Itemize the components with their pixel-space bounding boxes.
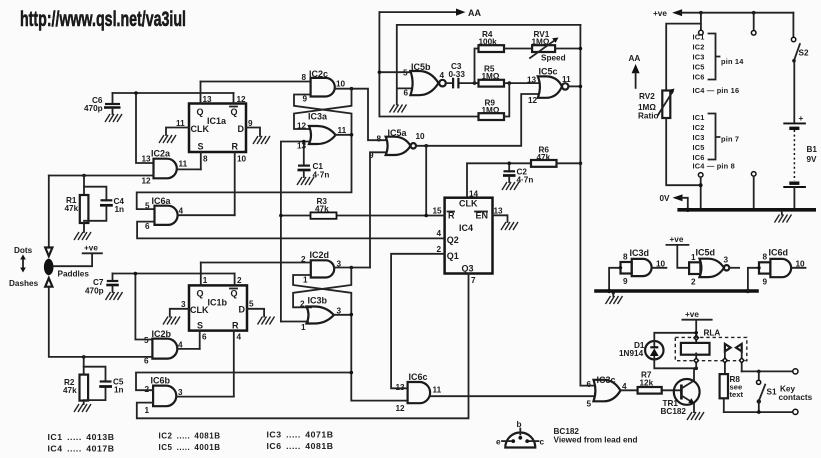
svg-text:CLK: CLK <box>191 124 210 134</box>
svg-text:IC6d: IC6d <box>769 248 789 258</box>
IC power text block lower <box>693 113 740 171</box>
svg-text:IC6b: IC6b <box>151 376 171 386</box>
wire IC4 pin 13 EN ground <box>493 215 508 222</box>
svg-text:Q: Q <box>231 289 238 299</box>
svg-text:Q3: Q3 <box>462 264 474 274</box>
IC1b pin 4 R stub (down to IC6b output) <box>233 331 235 397</box>
svg-text:13: 13 <box>203 95 213 104</box>
svg-text:Paddles: Paddles <box>58 270 90 279</box>
svg-text:6: 6 <box>404 89 409 98</box>
svg-text:S: S <box>197 321 203 331</box>
resistor R8 <box>720 374 728 398</box>
svg-text:Viewed from lead end: Viewed from lead end <box>554 436 638 445</box>
svg-text:+ve: +ve <box>670 235 684 244</box>
svg-text:4: 4 <box>179 207 184 216</box>
IC1b pin 1 stub + label <box>200 263 202 286</box>
wire IC3a output node / down to IC6a pin 5 run <box>137 135 352 209</box>
paddle contact triangle upper <box>45 248 52 257</box>
wire IC2d out to IC3b pin 2 (cross-couple) <box>293 268 351 308</box>
svg-text:IC3b: IC3b <box>308 296 328 306</box>
svg-text:13: 13 <box>297 142 307 151</box>
IC1b pin 6 S stub <box>199 331 201 349</box>
supply pin terminal lower right <box>751 172 756 177</box>
wire TR1 collector up to relay <box>693 368 695 380</box>
svg-text:IC6 ..... 4081B: IC6 ..... 4081B <box>267 442 334 451</box>
svg-text:Q2: Q2 <box>447 235 459 245</box>
svg-text:12: 12 <box>396 404 406 413</box>
svg-text:5: 5 <box>587 400 592 409</box>
wire IC5a out junction down to R-bar wire <box>425 146 427 216</box>
svg-text:6: 6 <box>587 380 592 389</box>
svg-text:13: 13 <box>527 76 537 85</box>
supply pin terminal lower left <box>698 173 703 178</box>
arrow dots/dashes double <box>22 259 24 268</box>
svg-text:5: 5 <box>145 202 150 211</box>
IC1a pin 11 CLK ground stub <box>166 128 189 136</box>
svg-text:IC2: IC2 <box>693 123 705 132</box>
svg-text:Q: Q <box>231 107 238 117</box>
relay coil RLA <box>681 343 710 355</box>
svg-text:IC3a: IC3a <box>308 112 328 122</box>
svg-text:Speed: Speed <box>541 54 566 63</box>
svg-text:+: + <box>799 114 804 123</box>
svg-text:IC3 ..... 4071B: IC3 ..... 4071B <box>267 431 334 440</box>
wire IC1b Q to IC2d pin 2 <box>201 262 311 264</box>
svg-text:13: 13 <box>494 207 504 216</box>
svg-text:9: 9 <box>623 277 628 286</box>
svg-text:12: 12 <box>237 95 247 104</box>
ground C6 <box>105 114 122 122</box>
svg-text:1: 1 <box>691 253 696 262</box>
svg-text:http://www.qsl.net/va3iul: http://www.qsl.net/va3iul <box>20 7 186 31</box>
wire D1 top to +ve vertical <box>654 333 696 342</box>
wire IC5a output to IC5c pin 12 <box>416 94 538 146</box>
svg-text:Dots: Dots <box>14 246 33 255</box>
wire IC2c out to IC3a pin 12 (cross-couple) <box>294 89 352 129</box>
svg-text:IC3: IC3 <box>693 133 705 142</box>
svg-text:IC2: IC2 <box>693 43 705 52</box>
svg-text:+ve: +ve <box>653 9 667 18</box>
IC1a pin 9 D ground stub <box>246 128 260 137</box>
svg-text:15: 15 <box>433 207 443 216</box>
ground mid rail <box>606 296 623 304</box>
svg-text:13: 13 <box>142 155 152 164</box>
ground IC1a CLK <box>159 135 176 143</box>
junction R2 tap <box>82 355 86 359</box>
wire IC3d output <box>652 267 667 269</box>
svg-text:IC5: IC5 <box>693 63 705 72</box>
svg-text:+ve: +ve <box>685 310 699 319</box>
svg-text:1: 1 <box>203 276 208 285</box>
wire D1 bottom to coil bottom <box>654 359 696 368</box>
wire left rail to RV2 <box>666 24 701 91</box>
svg-text:8: 8 <box>377 135 382 144</box>
wire IC3b output node down to IC6c pin 12 <box>334 315 408 401</box>
svg-text:11: 11 <box>562 75 571 84</box>
ground C2 <box>502 182 519 190</box>
IC1a pin 10 R stub (down to IC6a output) <box>234 152 236 215</box>
terminal key lower <box>793 409 798 414</box>
wire IC4 Q1 to IC6c pin 13 <box>391 254 445 388</box>
svg-text:8: 8 <box>203 155 208 164</box>
svg-text:4: 4 <box>440 71 445 80</box>
svg-text:IC1: IC1 <box>693 33 705 42</box>
svg-text:1: 1 <box>303 276 308 285</box>
svg-text:D: D <box>238 124 245 134</box>
svg-text:470p: 470p <box>85 287 104 296</box>
wire IC6b pin 2 up-over to IC3b output net <box>136 373 351 391</box>
svg-text:RLA: RLA <box>704 328 721 337</box>
svg-text:4: 4 <box>437 229 442 238</box>
IC1a pin 12 stub + label <box>233 93 235 104</box>
supply pin terminal upper left <box>700 13 702 31</box>
bracket upper block <box>709 34 720 80</box>
svg-text:S2: S2 <box>799 49 809 58</box>
svg-text:9: 9 <box>303 95 308 104</box>
svg-text:IC5d: IC5d <box>696 248 716 258</box>
wire IC6a pin 6 to IC4 Q2 long run <box>137 222 445 239</box>
svg-text:+ve: +ve <box>84 244 98 253</box>
svg-text:1n: 1n <box>115 205 125 214</box>
svg-text:e: e <box>496 438 501 447</box>
wire IC2d output node <box>334 267 370 269</box>
svg-text:IC3: IC3 <box>693 53 705 62</box>
wire IC2c output node <box>335 89 386 141</box>
wire IC3a pin 13 long vertical <box>281 142 310 322</box>
wire IC6a output to IC1a R vertical <box>178 214 235 216</box>
wire IC2c pin 9 from IC3a out (cross-couple) <box>294 95 352 135</box>
svg-text:12: 12 <box>142 177 152 186</box>
svg-text:2: 2 <box>437 245 442 254</box>
svg-text:9: 9 <box>248 119 253 128</box>
wire AA vertical to IC5b pin5 / R9 <box>379 12 478 116</box>
svg-text:9V: 9V <box>807 155 818 164</box>
wire IC2a pin 12 / dots paddle net <box>49 175 154 177</box>
wire dashes vertical to IC2b pin 6 <box>49 287 153 357</box>
svg-text:2: 2 <box>300 300 305 309</box>
svg-text:11: 11 <box>179 160 188 169</box>
wire IC3b pin 1 from IC3a-13 vertical <box>281 321 308 323</box>
svg-text:IC1b: IC1b <box>208 298 228 308</box>
svg-text:pin 14: pin 14 <box>721 57 744 66</box>
wire IC2a output to IC1a S <box>177 168 201 170</box>
wire IC1a Q to IC2c pin 8 <box>201 81 311 83</box>
svg-text:B1: B1 <box>807 145 818 154</box>
svg-text:CLK: CLK <box>459 199 478 209</box>
svg-text:D: D <box>239 305 246 315</box>
svg-text:2: 2 <box>301 255 306 264</box>
BC182 pinout drawing <box>496 420 545 448</box>
svg-text:text: text <box>730 390 744 399</box>
svg-text:AA: AA <box>629 54 641 63</box>
relay contact right (triangle) <box>736 344 742 351</box>
svg-text:4·7n: 4·7n <box>313 171 330 180</box>
wire IC2d pin 1 from IC3b out (cross-couple) <box>293 275 351 315</box>
arrow AA top <box>379 11 456 13</box>
svg-text:14: 14 <box>469 190 479 199</box>
svg-text:R: R <box>232 142 239 152</box>
paddle blob <box>44 259 54 275</box>
wire contact right to upper key terminal <box>742 370 793 372</box>
svg-text:6: 6 <box>144 357 149 366</box>
wire IC2b output to IC1b S <box>177 348 199 350</box>
wire IC6b output to IC1b R <box>176 396 234 398</box>
svg-text:8: 8 <box>623 253 628 262</box>
svg-text:S1: S1 <box>767 388 777 397</box>
svg-text:IC6a: IC6a <box>152 196 172 206</box>
svg-text:1N914: 1N914 <box>619 349 644 358</box>
svg-text:S: S <box>198 142 204 152</box>
svg-text:47k: 47k <box>65 204 79 213</box>
svg-text:11: 11 <box>176 119 185 128</box>
svg-text:2: 2 <box>237 276 242 285</box>
ground TR1 <box>687 412 704 420</box>
svg-text:c: c <box>540 438 545 447</box>
svg-text:4: 4 <box>237 333 242 342</box>
relay RLA dashed enclosure <box>675 337 747 360</box>
junction R1 tap <box>82 174 86 178</box>
ground IC4 EN <box>501 222 518 230</box>
svg-text:2: 2 <box>691 278 696 287</box>
svg-text:IC1a: IC1a <box>207 116 227 126</box>
IC1b pin 3 CLK ground stub <box>170 309 189 317</box>
junction C6 net <box>134 91 138 95</box>
svg-text:IC5 ..... 4001B: IC5 ..... 4001B <box>159 443 221 452</box>
svg-text:pin 7: pin 7 <box>721 135 739 144</box>
terminal key upper <box>793 369 798 374</box>
paddle contact triangle lower <box>45 278 52 287</box>
wire TR1 emitter to ground <box>693 403 695 412</box>
relay contact left (triangle) <box>725 344 731 351</box>
svg-text:47k: 47k <box>63 386 77 395</box>
svg-text:10: 10 <box>237 155 247 164</box>
ground IC1b D <box>258 317 275 325</box>
svg-text:10: 10 <box>336 80 346 89</box>
svg-text:IC5c: IC5c <box>539 67 558 77</box>
svg-text:9: 9 <box>763 278 768 287</box>
svg-text:12: 12 <box>297 122 307 131</box>
ground bottom rail <box>775 215 792 223</box>
svg-text:IC4: IC4 <box>459 223 473 233</box>
svg-text:IC4 — pin 8: IC4 — pin 8 <box>693 162 735 171</box>
svg-text:12: 12 <box>528 96 538 105</box>
svg-text:IC1: IC1 <box>693 113 705 122</box>
junction C3/R4/R5 node <box>473 81 477 85</box>
svg-text:IC3d: IC3d <box>630 248 650 258</box>
svg-text:5: 5 <box>249 300 254 309</box>
svg-text:8: 8 <box>302 73 307 82</box>
svg-text:Dashes: Dashes <box>9 279 39 288</box>
wire oscillator right vertical down to IC3c pin 6 <box>580 25 594 386</box>
IC1a pin 13 stub + label <box>200 82 202 104</box>
ground C1 <box>297 177 314 185</box>
svg-text:6: 6 <box>202 333 207 342</box>
svg-text:Q: Q <box>197 289 204 299</box>
flip-flop IC1b <box>189 285 247 330</box>
svg-text:1n: 1n <box>114 386 124 395</box>
capacitor C6 <box>84 93 121 114</box>
svg-text:IC4 — pin 16: IC4 — pin 16 <box>693 86 740 95</box>
svg-text:AA: AA <box>468 8 481 18</box>
svg-text:IC1 ..... 4013B: IC1 ..... 4013B <box>48 433 115 442</box>
supply pin terminal upper right <box>753 13 755 31</box>
svg-text:BC182: BC182 <box>661 407 687 416</box>
svg-text:R: R <box>232 321 239 331</box>
wire IC5d output <box>729 267 739 269</box>
flip-flop IC1a <box>189 104 246 153</box>
svg-text:0V: 0V <box>660 194 671 203</box>
IC power text block upper <box>693 33 745 96</box>
svg-text:470p: 470p <box>84 104 103 113</box>
wire oscillator top feedback <box>397 25 581 105</box>
svg-text:IC2a: IC2a <box>151 149 171 159</box>
svg-text:Q1: Q1 <box>447 251 459 261</box>
svg-text:IC6c: IC6c <box>409 372 428 382</box>
svg-text:5: 5 <box>403 69 408 78</box>
switch S1 <box>758 371 760 380</box>
svg-text:5: 5 <box>144 336 149 345</box>
wire IC6d output <box>791 267 806 269</box>
legend IC types <box>48 431 334 454</box>
ground C7 <box>106 292 123 300</box>
svg-text:3: 3 <box>178 388 183 397</box>
svg-text:3: 3 <box>724 256 729 265</box>
ground IC1b CLK <box>163 317 180 325</box>
svg-text:IC2 ..... 4081B: IC2 ..... 4081B <box>159 432 221 441</box>
svg-text:11: 11 <box>433 386 442 395</box>
bottom supply rail <box>677 208 816 212</box>
svg-text:8: 8 <box>763 253 768 262</box>
svg-text:RV2: RV2 <box>639 92 655 101</box>
svg-text:IC4 ..... 4017B: IC4 ..... 4017B <box>48 445 115 454</box>
svg-text:Ratio: Ratio <box>638 112 658 121</box>
wire IC6c output to IC3c pin 5 <box>430 395 594 397</box>
wire C7/IC1b-Q̄/IC2b-5 net <box>113 274 235 340</box>
ground R2 <box>74 404 91 412</box>
wire C6/IC1a-Q̄/IC2a-13 net <box>113 93 234 163</box>
counter IC4 <box>445 198 493 274</box>
wire IC6b pin 1 loop to bottom bus / IC4 Q3 <box>137 274 469 419</box>
svg-text:CLK: CLK <box>190 305 209 315</box>
svg-text:1: 1 <box>145 406 150 415</box>
bracket lower block <box>709 114 720 160</box>
ground IC1a D <box>253 136 270 144</box>
svg-text:0-33: 0-33 <box>449 70 466 79</box>
wire IC3d inputs to mid rail <box>609 268 620 291</box>
ground R1 <box>74 232 91 240</box>
svg-text:IC6: IC6 <box>693 73 705 82</box>
svg-text:1: 1 <box>301 323 306 332</box>
svg-text:11: 11 <box>338 126 347 135</box>
IC1b pin 2 stub + label <box>234 274 236 286</box>
svg-text:13: 13 <box>396 383 406 392</box>
svg-text:Q: Q <box>197 107 204 117</box>
wire R-bar net (IC3a pin13 run to IC4 pin 15) <box>281 215 445 217</box>
wire lower key run <box>724 411 793 413</box>
IC1a pin 8 S stub <box>200 152 202 169</box>
svg-text:7: 7 <box>471 276 476 285</box>
mid ground rail <box>594 289 759 292</box>
wire IC5c output to right vertical <box>568 85 580 87</box>
wire IC6d inputs to mid rail <box>748 268 759 291</box>
wire IC5a pin 9 down to IC2d output <box>370 152 386 267</box>
svg-text:3: 3 <box>181 300 186 309</box>
svg-text:10: 10 <box>416 132 426 141</box>
svg-text:6: 6 <box>145 222 150 231</box>
switch S2 <box>792 13 794 38</box>
svg-text:contacts: contacts <box>779 393 813 402</box>
svg-text:IC2d: IC2d <box>310 250 330 260</box>
wire RV2 down to 0V row <box>666 118 701 185</box>
IC1b pin 5 D ground stub <box>247 309 264 317</box>
svg-text:IC5: IC5 <box>693 143 705 152</box>
wire dots vertical <box>48 176 50 248</box>
transistor TR1 BC182 <box>674 379 700 405</box>
ground oscillator left <box>390 105 407 113</box>
